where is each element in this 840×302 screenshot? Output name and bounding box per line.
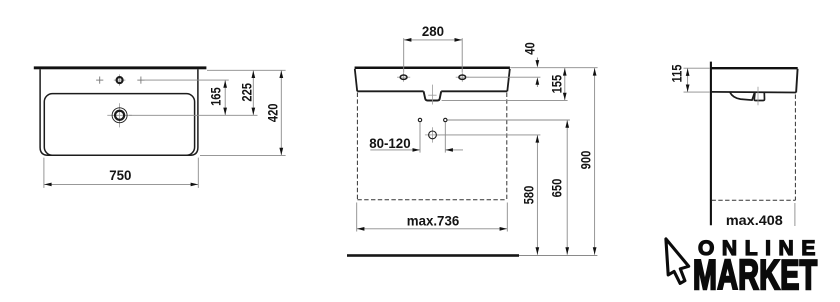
svg-text:MARKET: MARKET	[693, 252, 818, 299]
svg-text:40: 40	[522, 42, 537, 54]
svg-text:420: 420	[265, 103, 280, 122]
svg-text:155: 155	[549, 75, 564, 94]
svg-text:max.408: max.408	[726, 213, 783, 229]
svg-text:max.736: max.736	[407, 213, 460, 228]
svg-text:900: 900	[578, 151, 593, 170]
svg-text:280: 280	[422, 24, 445, 39]
svg-text:580: 580	[521, 186, 536, 205]
svg-text:225: 225	[239, 83, 254, 102]
svg-text:80-120: 80-120	[369, 136, 411, 151]
svg-text:750: 750	[109, 168, 132, 183]
svg-text:115: 115	[669, 64, 684, 82]
svg-text:165: 165	[208, 87, 223, 106]
svg-text:650: 650	[549, 179, 564, 198]
